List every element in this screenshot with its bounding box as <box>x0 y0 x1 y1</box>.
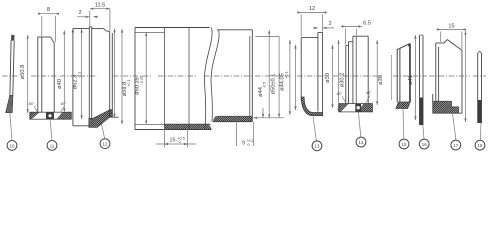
svg-text:-0.05: -0.05 <box>140 76 144 84</box>
tube top edge right <box>217 29 252 31</box>
svg-text:-0.5: -0.5 <box>262 82 266 88</box>
part 3 bottom edge <box>73 125 90 127</box>
svg-text:ø50.8: ø50.8 <box>20 65 26 80</box>
balloon 10 <box>475 140 485 150</box>
dimension diameter 30 (part 5 bore) <box>331 45 333 108</box>
leader to balloon 9 <box>453 113 456 140</box>
part 3 cup housing <box>69 27 133 129</box>
part 6 step edge a <box>346 45 349 47</box>
part 10 right edge <box>481 53 483 123</box>
part 5 right wall <box>322 32 324 116</box>
part 9 top edge <box>436 42 444 44</box>
part 10 left edge <box>477 53 479 123</box>
dimension 2 (part 5 rim) <box>313 27 334 29</box>
dimension diameter 41 (part 7) <box>414 35 416 120</box>
part 6 top edge <box>353 35 368 37</box>
part 2 chamfer <box>51 37 55 43</box>
part 2 right edge <box>53 43 55 112</box>
part 3 right lip inner <box>111 33 113 117</box>
tube inner feature near right end <box>249 36 251 116</box>
part 5 hatched J-hook lip <box>301 97 322 116</box>
svg-text:45°: 45° <box>29 102 35 106</box>
part 3 mouth bottom <box>110 116 119 118</box>
svg-text:10: 10 <box>10 143 15 148</box>
tube break line 1 <box>204 28 212 130</box>
tube bore bottom line <box>135 123 165 125</box>
balloon 3 <box>100 139 110 149</box>
part 2 flange outline <box>30 112 72 119</box>
part 10 thin rod <box>478 52 482 123</box>
leader to balloon 3 <box>102 124 105 138</box>
part 7 pressed cap ring <box>387 43 419 109</box>
part 9 lip seal <box>418 40 472 115</box>
dimension 15 +0.5/0 (tube groove) <box>156 125 196 148</box>
part 9 base bottom edge <box>433 112 462 114</box>
part 2 flange right hatch <box>47 111 81 120</box>
svg-text:45°: 45° <box>61 102 67 106</box>
tube bottom wall hatch right <box>205 115 261 123</box>
svg-text:2: 2 <box>328 21 331 27</box>
part 3 top edge <box>73 28 89 30</box>
dimension 12 (part 5 width) <box>297 11 327 36</box>
part 7 right wall <box>409 44 411 102</box>
part 9 lip peak <box>444 40 462 51</box>
svg-text:ø41: ø41 <box>408 75 414 85</box>
part 2 top edge <box>37 36 50 38</box>
tube bottom edge right <box>213 121 252 123</box>
svg-text:ø40: ø40 <box>57 79 63 89</box>
part 7 left wall pair <box>396 49 398 102</box>
leader to balloon 7 <box>402 109 405 140</box>
part 6 step riser a <box>348 42 350 104</box>
part 6 stepped bushing <box>328 36 383 113</box>
svg-text:12: 12 <box>103 142 108 147</box>
svg-text:16: 16 <box>422 142 427 147</box>
svg-text:+0.1: +0.1 <box>285 71 289 78</box>
tube groove edge a <box>164 28 166 130</box>
ext line left of part 7 <box>391 55 393 100</box>
dimension diameter 58.8 (part 3 mouth) <box>113 29 123 125</box>
part 4 tube left portion <box>135 28 260 131</box>
tube bore top line <box>135 31 165 33</box>
part 6 flange left hatch <box>328 103 359 113</box>
svg-text:15: 15 <box>402 142 407 147</box>
svg-text:15: 15 <box>448 23 454 29</box>
part 6 step edge b <box>349 41 353 43</box>
part 9 right edge <box>461 50 463 113</box>
dimension diameter 62.3 (part 2 flange) <box>80 29 82 119</box>
part 7 bottom hatched foot <box>396 102 410 109</box>
svg-text:8: 8 <box>47 7 50 13</box>
dimension 8 (part 2 width) <box>38 13 59 43</box>
dimension 9 +0.2/0 (tube right wall) <box>237 108 284 146</box>
svg-text:ø50±0.1: ø50±0.1 <box>271 74 277 95</box>
balloon 7 <box>399 139 409 149</box>
part 3 inner line b <box>91 27 93 120</box>
svg-text:11: 11 <box>50 143 55 148</box>
dimension 15 (part 9 width) <box>437 28 467 49</box>
part 5 top edge <box>301 37 318 39</box>
balloon 5 <box>312 141 322 151</box>
svg-text:18: 18 <box>478 143 483 148</box>
leader to balloon 5 <box>313 117 316 141</box>
balloon 8 <box>419 139 429 149</box>
svg-text:2: 2 <box>78 10 81 16</box>
leader to balloon 8 <box>423 125 424 139</box>
part 5 rim left <box>317 32 319 37</box>
tube bottom edge left <box>135 129 211 131</box>
part 8 right edge <box>422 35 424 125</box>
centerline axis y=76 <box>2 75 486 77</box>
tube left edge <box>134 28 136 130</box>
balloon 9 <box>451 140 461 150</box>
dimension diameter 50.35 (tube bore) <box>145 33 147 125</box>
balloon 1 <box>7 141 17 151</box>
dimension diameter 44.05 +0.1 <box>255 36 291 117</box>
part 8 top cap <box>420 34 424 37</box>
dimension 2 (part 3 wall) <box>77 16 99 18</box>
part 3 hatched bottom wall <box>89 110 113 128</box>
part 1 thin shim washer <box>0 35 30 114</box>
part 10 solid lower section <box>478 100 482 123</box>
part 3 dim arrow on left corner <box>72 29 74 33</box>
part 9 left wall b <box>438 47 440 102</box>
svg-text:+0.1: +0.1 <box>127 79 131 86</box>
svg-text:17: 17 <box>453 143 458 148</box>
leader to balloon 1 <box>10 113 12 141</box>
svg-text:6.5: 6.5 <box>363 21 371 27</box>
part 6 left edge <box>345 46 347 104</box>
dimension line aux at 295.5 <box>294 45 296 110</box>
part 6 step riser b <box>352 36 354 103</box>
svg-text:0: 0 <box>248 143 250 147</box>
part 1 solid tip <box>11 35 15 41</box>
part 9 hatched base <box>433 101 459 113</box>
part 10 rounded top <box>478 52 482 54</box>
svg-text:-0.1: -0.1 <box>78 72 82 78</box>
part 8 left edge <box>419 35 421 125</box>
part 8 solid lower section <box>420 98 424 126</box>
svg-text:15: 15 <box>170 138 176 144</box>
dimension diameter 50.8 (part 1) <box>27 35 29 113</box>
leader to balloon 6 <box>358 112 360 137</box>
svg-text:13: 13 <box>315 144 320 149</box>
balloon 2 <box>47 141 57 151</box>
part 6 inner line <box>355 36 357 103</box>
part 8 thin pin <box>420 35 424 125</box>
leader to balloon 10 <box>479 123 482 140</box>
dimension diameter 30.2 (part 6 bore) <box>337 40 339 112</box>
tube top edge left <box>135 27 210 29</box>
part 3 top lip edge <box>107 30 110 32</box>
part 2 flange left hatch <box>20 111 48 120</box>
part 3 left edge <box>72 29 74 126</box>
tube bore line right <box>217 115 252 117</box>
part 1 hatched foot <box>6 95 13 112</box>
tube bottom wall hatch left <box>156 123 220 130</box>
part 3 right lip outer <box>109 31 111 117</box>
part 5 left wall <box>300 38 302 101</box>
svg-text:45°: 45° <box>337 92 343 96</box>
part 9 left wall a <box>435 43 437 102</box>
part 3 rim cap <box>89 26 91 28</box>
svg-text:45°: 45° <box>366 91 372 95</box>
dimension line part 6 flange dia <box>376 40 378 105</box>
tube bottom wall top border <box>165 123 211 125</box>
balloon 6 <box>356 137 366 147</box>
part 2 left edge <box>37 37 39 112</box>
part 6 flange outline <box>339 104 372 112</box>
tube break line 2 <box>211 30 219 122</box>
leader to balloon 2 <box>50 119 52 140</box>
tube groove edge b <box>188 28 190 130</box>
part 6 flange center blob <box>355 104 361 112</box>
part 6 flange right hatch <box>347 103 383 113</box>
part 3 inner line a <box>88 27 90 119</box>
dimension 11.5 (part 3 depth) <box>90 8 110 31</box>
part 3 top chamfer <box>104 29 108 32</box>
tube right end face <box>251 30 253 122</box>
part 2 bushing with flange <box>20 37 81 120</box>
part 2 flange center section blob <box>46 112 54 119</box>
svg-text:ø30: ø30 <box>325 73 331 83</box>
svg-text:0: 0 <box>179 140 181 144</box>
part 6 right edge <box>367 36 369 103</box>
part 5 inner wall <box>317 38 319 112</box>
part 7 slanted top <box>400 43 410 48</box>
svg-text:14: 14 <box>359 140 364 145</box>
part 2 inner line <box>41 37 43 112</box>
svg-text:ø30.2: ø30.2 <box>340 73 346 88</box>
svg-text:9: 9 <box>242 140 245 146</box>
part 9 outer lip left <box>432 94 434 102</box>
dimension diameter 50 +-0.1 (tube right outer) <box>268 30 270 118</box>
dimension 6.5 (part 6) <box>341 25 362 44</box>
svg-text:11.5: 11.5 <box>95 3 105 9</box>
dimension line part 10 dia <box>464 31 466 122</box>
part 1 right edge <box>13 41 14 96</box>
svg-text:ø38: ø38 <box>378 75 384 85</box>
part 5 seal cup <box>280 32 343 116</box>
part 1 left edge <box>10 40 11 96</box>
part 5 rim top <box>318 31 323 33</box>
dimension diameter 40 (part 2 bore) <box>63 31 65 113</box>
svg-text:12: 12 <box>309 6 315 12</box>
